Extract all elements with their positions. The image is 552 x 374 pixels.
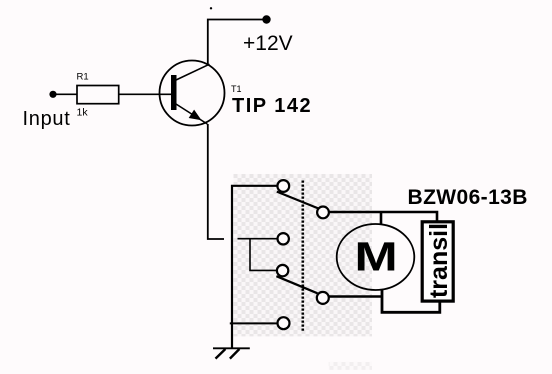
svg-text:transil: transil [425, 223, 453, 298]
svg-text:1k: 1k [77, 107, 89, 119]
svg-text:Input: Input [23, 108, 71, 130]
svg-text:BZW06-13B: BZW06-13B [408, 186, 528, 209]
svg-text:+12V: +12V [243, 32, 293, 55]
svg-text:TIP 142: TIP 142 [232, 95, 312, 117]
svg-text:R1: R1 [77, 71, 89, 82]
svg-text:M: M [354, 234, 397, 279]
svg-text:T1: T1 [231, 84, 242, 94]
